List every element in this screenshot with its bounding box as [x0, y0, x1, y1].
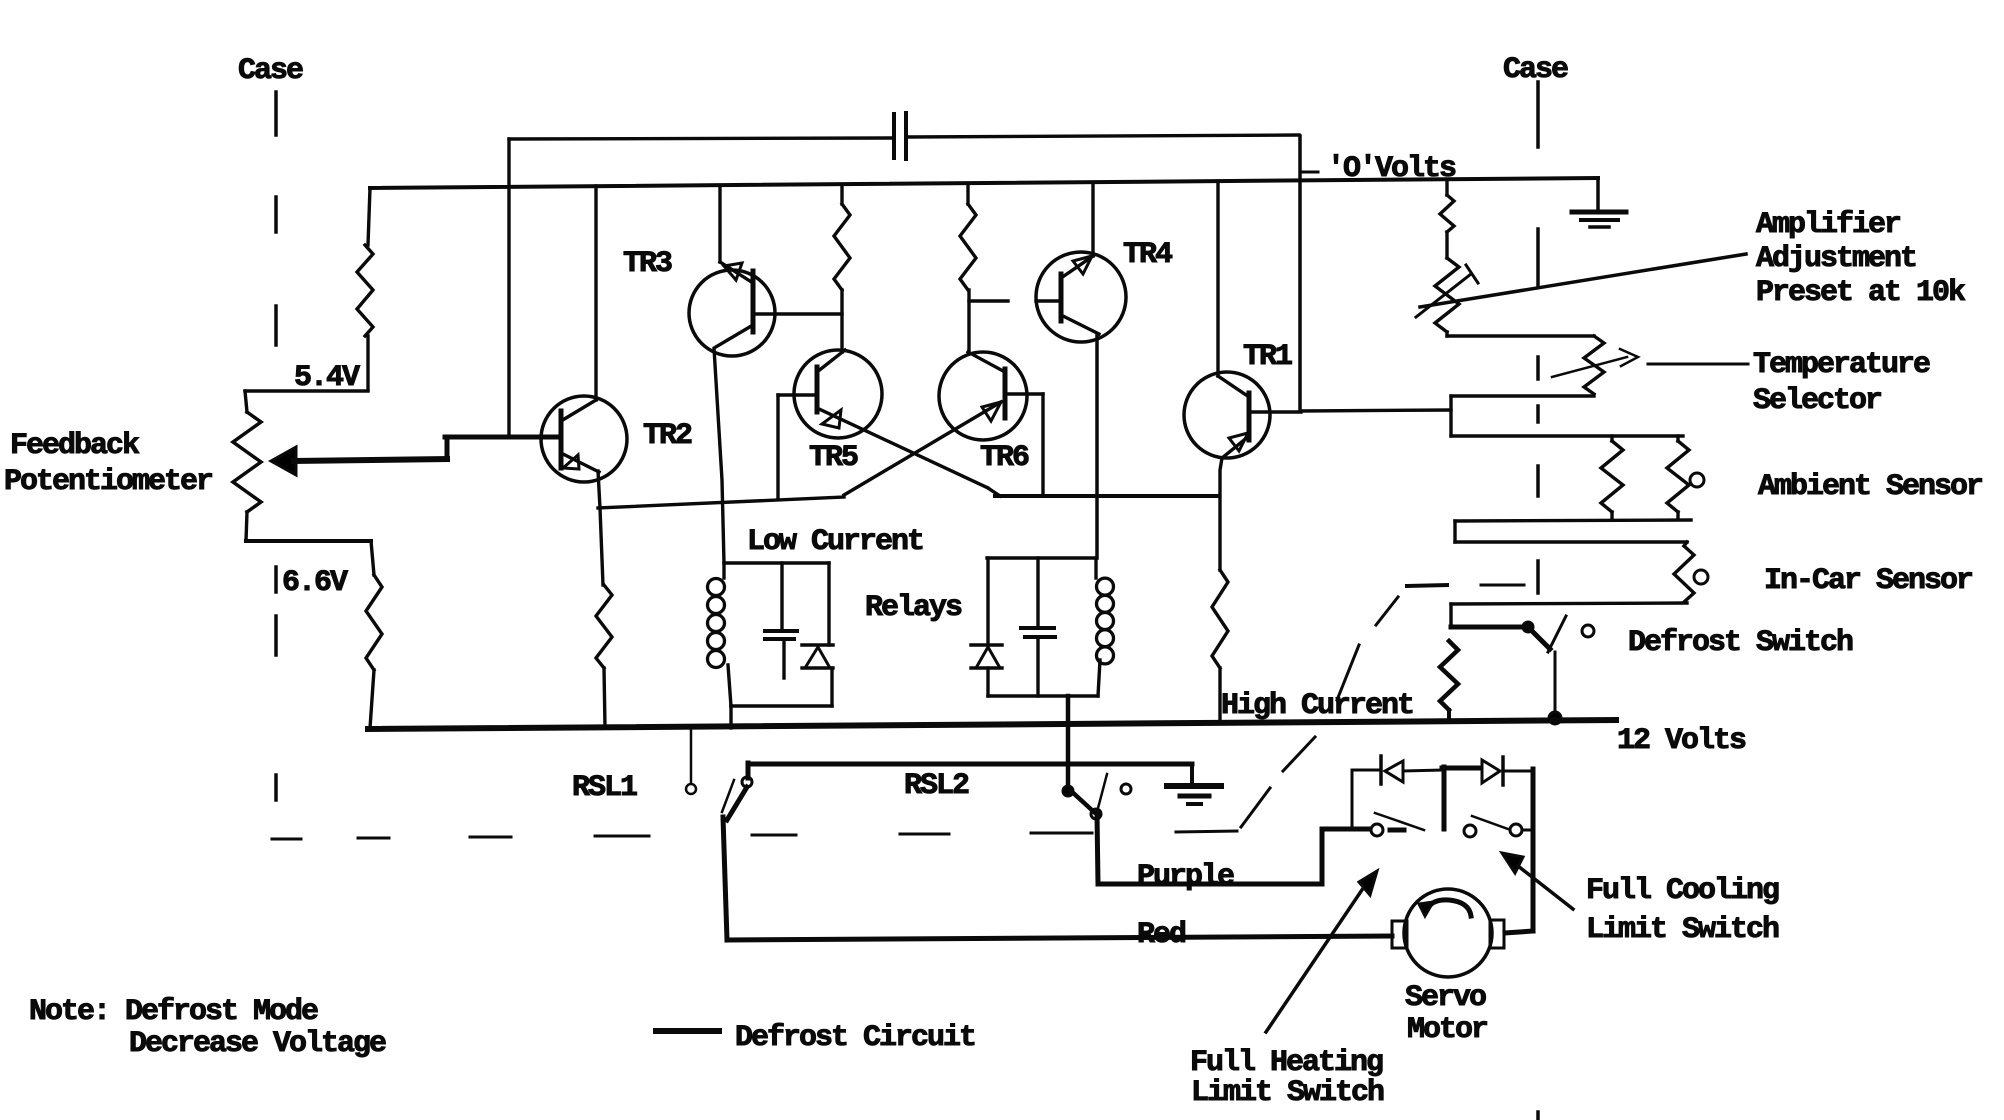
- svg-text:TR2: TR2: [643, 419, 692, 453]
- svg-text:Temperature: Temperature: [1753, 348, 1930, 382]
- svg-text:Defrost Switch: Defrost Switch: [1628, 626, 1853, 660]
- svg-text:Amplifier: Amplifier: [1756, 208, 1900, 242]
- svg-text:Adjustment: Adjustment: [1756, 242, 1916, 276]
- svg-text:Full Heating: Full Heating: [1190, 1046, 1383, 1080]
- svg-text:Motor: Motor: [1407, 1013, 1487, 1047]
- svg-text:Limit Switch: Limit Switch: [1191, 1076, 1384, 1110]
- svg-text:Defrost Circuit: Defrost Circuit: [735, 1021, 975, 1055]
- svg-text:5.4V: 5.4V: [294, 361, 360, 395]
- svg-text:Limit Switch: Limit Switch: [1586, 913, 1779, 947]
- svg-text:TR4: TR4: [1123, 238, 1173, 272]
- svg-text:TR5: TR5: [809, 441, 858, 475]
- svg-text:'O'Volts: 'O'Volts: [1327, 152, 1456, 186]
- svg-text:Decrease Voltage: Decrease Voltage: [129, 1027, 386, 1061]
- svg-text:6.6V: 6.6V: [282, 566, 348, 600]
- svg-text:Selector: Selector: [1753, 384, 1881, 418]
- svg-text:Ambient Sensor: Ambient Sensor: [1758, 470, 1982, 504]
- svg-text:Potentiometer: Potentiometer: [4, 465, 212, 499]
- svg-text:Red: Red: [1137, 918, 1185, 952]
- svg-text:Preset at 10k: Preset at 10k: [1756, 276, 1966, 310]
- svg-text:TR6: TR6: [980, 441, 1029, 475]
- svg-text:TR3: TR3: [623, 247, 672, 281]
- svg-text:12 Volts: 12 Volts: [1617, 724, 1746, 758]
- svg-text:Purple: Purple: [1137, 860, 1234, 894]
- svg-text:Low Current: Low Current: [747, 525, 923, 559]
- svg-text:High Current: High Current: [1221, 689, 1413, 723]
- svg-text:TR1: TR1: [1243, 340, 1292, 374]
- svg-text:Case: Case: [1503, 53, 1568, 87]
- svg-text:Relays: Relays: [865, 591, 962, 625]
- svg-text:Case: Case: [238, 54, 303, 88]
- svg-text:Feedback: Feedback: [10, 429, 140, 463]
- svg-text:Servo: Servo: [1405, 981, 1486, 1015]
- svg-text:In-Car Sensor: In-Car Sensor: [1764, 564, 1972, 598]
- svg-text:RSL1: RSL1: [572, 771, 637, 805]
- svg-text:Full Cooling: Full Cooling: [1586, 874, 1779, 908]
- svg-text:RSL2: RSL2: [904, 769, 969, 803]
- svg-text:Note: Defrost Mode: Note: Defrost Mode: [29, 995, 318, 1029]
